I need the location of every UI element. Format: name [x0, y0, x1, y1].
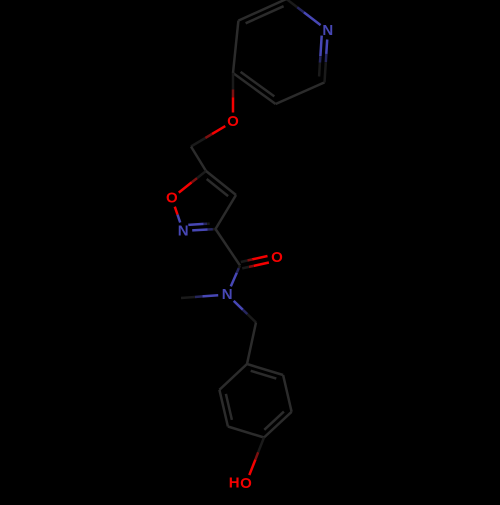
- pyridine bond N1-C2: [304, 12, 321, 25]
- svg-text:N: N: [322, 22, 333, 39]
- phenol ring bond C1=C2: [247, 364, 283, 375]
- isoxazole bond C3-C4: [216, 195, 237, 229]
- phenol ring bond C1=C2 inner line: [251, 371, 277, 379]
- svg-text:O: O: [271, 249, 283, 266]
- bond N amide-CH3: [202, 295, 218, 296]
- phenol ring bond C2-C3: [283, 375, 292, 412]
- isoxazole bond C4=C5 inner line: [207, 179, 228, 196]
- svg-text:O: O: [227, 113, 239, 130]
- svg-text:O: O: [166, 190, 178, 207]
- carbonyl C=O double bond: [254, 263, 269, 266]
- bond carbonyl C-N amide: [231, 273, 237, 287]
- phenol ring bond C5=C6 inner line: [226, 394, 232, 420]
- pyridine bond C2=C3: [238, 0, 286, 21]
- bond CH2-C1 phenol ring: [247, 323, 256, 365]
- isoxazole bond O1-N2: [175, 207, 178, 215]
- bond isoxazole C3-carbonyl C: [216, 229, 241, 266]
- pyridine bond C4=C5: [233, 73, 276, 104]
- pyridine bond C5-C6: [276, 82, 325, 104]
- isoxazole bond N2=C3: [192, 228, 208, 231]
- bond CH2-C5 isoxazole: [191, 147, 206, 172]
- pyridine bond C6=N1: [325, 40, 328, 54]
- isoxazole bond C5-O1: [179, 182, 192, 192]
- bond phenol C4-OH: [249, 460, 255, 476]
- phenol ring bond C3=C4 inner line: [264, 412, 284, 430]
- bond O ether-CH2: [212, 126, 225, 134]
- svg-text:H: H: [229, 475, 240, 492]
- phenol ring bond C5=C6: [219, 390, 228, 427]
- pyridine bond C4=C5 inner line: [241, 72, 275, 97]
- svg-text:N: N: [222, 286, 233, 303]
- isoxazole bond C4=C5: [206, 171, 236, 195]
- svg-text:N: N: [178, 223, 189, 240]
- svg-text:O: O: [240, 475, 252, 492]
- bond pyridine C4-O ether: [232, 97, 235, 112]
- phenol ring bond C4-C5: [228, 427, 264, 438]
- pyridine bond C2=C3 inner line: [246, 6, 284, 23]
- pyridine bond C6=N1 inner line: [320, 36, 321, 57]
- phenol ring bond C6-C1: [219, 364, 247, 390]
- bond N amide-CH2 benzyl: [234, 301, 243, 310]
- pyridine bond C3-C4: [233, 21, 238, 73]
- isoxazole bond N2=C3 inner line: [188, 224, 203, 225]
- phenol ring bond C3=C4: [264, 412, 292, 438]
